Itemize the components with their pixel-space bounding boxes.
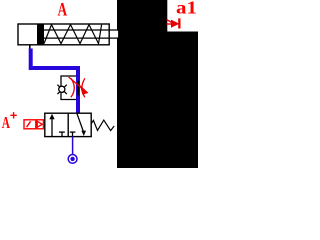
right position: exhaust path arrow [77,114,83,131]
throttle restrictor arcs [71,78,85,97]
wire: valve supply port to air source [72,137,74,155]
piston rod [117,31,118,38]
return spring [44,25,102,44]
throttle line segment [77,81,79,96]
left position: flow path arrow [51,118,53,137]
valve body [45,113,91,136]
pilot actuation box A+ (slash and triangle) [24,120,43,129]
position divider [67,113,69,136]
right position: blocked port [70,131,76,133]
left position: blocked port [59,131,65,133]
piston [37,24,44,45]
cylinder A (single-acting, spring return) [18,24,118,49]
one-way flow control valve V2 [57,76,78,100]
throttle adjustability arrow [69,77,88,94]
check valve ball [59,86,65,92]
limit switch marker a1 (arrow hitting stop bar) [167,18,181,28]
svg-text:A: A [2,113,10,132]
wire: pressurized line cylinder port to flow control valve [31,49,78,114]
cylinder port stub [29,45,31,49]
svg-text:a1: a1 [176,0,197,18]
compressed air supply [68,155,77,164]
3/2-way directional valve V1 [45,113,114,136]
check valve seat [57,85,66,94]
valve return spring [91,120,114,131]
svg-text:A: A [58,1,68,21]
cylinder barrel [18,24,109,45]
bypass loop box [61,76,76,100]
